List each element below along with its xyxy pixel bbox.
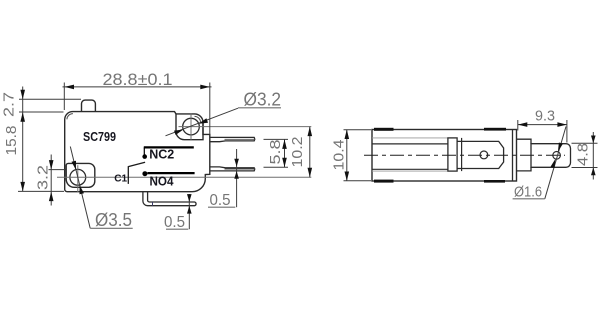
terminal blade C1 (bottom, L-shaped) [143, 192, 196, 206]
clip ear top-right [484, 128, 506, 131]
contact tick NC [143, 147, 145, 155]
dimension 2.7 (button height) [19, 87, 81, 192]
side view body [372, 130, 517, 182]
seam tick on C1 blade [152, 202, 154, 206]
svg-text:NC2: NC2 [149, 148, 174, 162]
dimension 10.2 (hole center spacing) [309, 127, 311, 178]
leader and label D3.2 [166, 108, 239, 136]
terminal blade NC (top right) [210, 137, 256, 141]
switch body outline (front view) [65, 112, 210, 192]
svg-text:15.8: 15.8 [4, 126, 20, 156]
svg-text:10.2: 10.2 [290, 137, 306, 168]
inner fillet arc of top-right boss [195, 116, 201, 122]
svg-text:3.2: 3.2 [35, 165, 52, 190]
dimension 0.5 (C1 blade thickness) [188, 194, 190, 229]
contact line NC (thick) [144, 146, 194, 148]
dimension 3.2 (boss) [49, 155, 66, 206]
leader and label D3.5 [70, 147, 90, 229]
top-right hole boss outline [176, 114, 203, 140]
common lever wire [128, 162, 145, 166]
clip ear bottom-left [374, 180, 394, 183]
contact dot NC [142, 154, 147, 159]
svg-text:Ø1.6: Ø1.6 [514, 185, 542, 201]
horizontal centerline of hole D3.2 / extension for 10.2 [179, 126, 312, 128]
lever stem exiting body [517, 139, 532, 171]
plunger nose (chamfered) [457, 141, 504, 168]
leader and label D1.6 [545, 127, 566, 199]
dimension 4.8 (lever tip height) [572, 132, 598, 180]
channel slot upper line [372, 143, 448, 145]
vertical centerline of hole D3.5 [77, 165, 79, 192]
common terminal bracket C1 [127, 166, 129, 184]
dimension 0.5 (right blade thickness) [236, 149, 238, 207]
vertical centerline of hole D3.2 [190, 114, 192, 140]
actuator button on top [82, 100, 96, 112]
hole D1.6 [553, 152, 561, 160]
svg-text:28.8±0.1: 28.8±0.1 [103, 71, 173, 89]
svg-text:SC799: SC799 [83, 129, 116, 144]
dash-dot centerline of side view [364, 154, 565, 156]
channel slot lower line [372, 168, 448, 170]
bottom-left hole boss outline [66, 163, 95, 187]
channel outline faint upper [372, 137, 448, 139]
contact dot NO [142, 171, 147, 176]
contact line NO (thick) [147, 172, 194, 174]
clip ear bottom-right [484, 180, 505, 183]
dimension 10.4 (side view height) [344, 130, 372, 182]
plunger flange [448, 138, 457, 171]
dimension 15.8 (body height) [20, 182, 25, 192]
terminal blade NO (bottom right) [210, 167, 256, 171]
hole D3.2 [183, 118, 200, 135]
horizontal centerline of hole D3.5 / extension for 10.2 [57, 176, 311, 178]
plunger collar line [461, 138, 463, 171]
clip ear top-left [374, 128, 394, 131]
svg-text:NO4: NO4 [150, 174, 174, 188]
svg-text:C1: C1 [114, 173, 127, 185]
dimension 28.8+-0.1 (top width) [63, 83, 212, 135]
dimension 9.3 (lever length) [518, 120, 567, 143]
svg-text:Ø3.2: Ø3.2 [244, 89, 282, 109]
pin hole in plunger [480, 151, 488, 159]
svg-text:Ø3.5: Ø3.5 [95, 210, 132, 230]
svg-text:0.5: 0.5 [164, 214, 185, 231]
dimension 5.8 (blade spacing) [264, 139, 289, 167]
svg-text:10.4: 10.4 [332, 140, 348, 171]
channel outline faint lower [372, 170, 448, 172]
svg-text:0.5: 0.5 [210, 192, 231, 209]
svg-text:9.3: 9.3 [535, 109, 555, 125]
svg-text:5.8: 5.8 [267, 140, 284, 165]
hole D3.5 [70, 169, 86, 185]
side view right inner wall [512, 130, 514, 182]
svg-text:4.8: 4.8 [576, 143, 592, 166]
lever tip with hole [531, 144, 571, 168]
svg-text:2.7: 2.7 [1, 92, 18, 117]
inner fillet line at top-left corner [67, 114, 73, 120]
